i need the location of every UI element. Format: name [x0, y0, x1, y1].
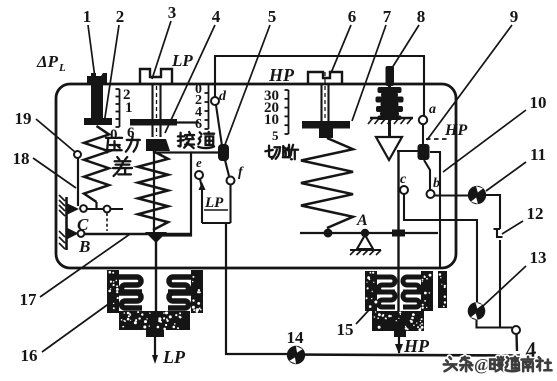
- contact B arrow: [68, 228, 79, 239]
- HP scale bracket: [288, 90, 290, 134]
- svg-text:A: A: [356, 212, 368, 229]
- union 12 jog: [494, 229, 503, 237]
- svg-text:12: 12: [527, 204, 544, 223]
- text 压力差: [106, 138, 122, 153]
- wire 10 vertical: [430, 152, 440, 268]
- text 切断: [265, 146, 280, 159]
- junction circle right: [512, 326, 520, 334]
- bellows 16 assembly: [107, 270, 119, 313]
- frame ledge to contact blob: [191, 151, 222, 153]
- svg-text:14: 14: [287, 328, 305, 347]
- lever A beam: [300, 232, 438, 234]
- dP screw rod: [91, 84, 103, 123]
- contact lever d-f: [216, 105, 222, 146]
- HP adjusting screw head: [308, 72, 342, 84]
- rod T joint: [392, 230, 405, 237]
- terminal c: [400, 186, 408, 194]
- HP screw rod: [320, 84, 322, 122]
- svg-text:a: a: [429, 102, 436, 117]
- ground bar: [370, 117, 413, 119]
- wire c to valve 13: [404, 194, 477, 302]
- terminal b: [427, 190, 435, 198]
- svg-text:6: 6: [348, 7, 357, 26]
- svg-text:LP: LP: [171, 51, 193, 70]
- svg-text:16: 16: [21, 346, 38, 365]
- contact arm rod (18): [77, 158, 79, 206]
- dP pointer bar: [84, 118, 112, 125]
- svg-text:18: 18: [13, 149, 30, 168]
- wire d-a top pipe: [215, 56, 424, 116]
- lever pivot circle (19): [74, 151, 81, 158]
- HP supply pipe: [398, 337, 400, 353]
- disc stack: [388, 86, 391, 137]
- wire valve11 right and down: [486, 195, 500, 229]
- LP supply pipe: [154, 337, 156, 360]
- LP scale bracket: [208, 84, 210, 129]
- fixed armature bar hatched: [65, 197, 68, 250]
- HP port dashed: [426, 138, 450, 140]
- controller case: [56, 84, 456, 268]
- pivot A: [361, 229, 369, 237]
- valve 13: [465, 300, 487, 322]
- wire e-f joint: [202, 222, 231, 224]
- LP bellows push rod: [155, 236, 157, 313]
- bellows 16 base: [119, 311, 190, 330]
- svg-text:8: 8: [417, 7, 426, 26]
- valve 14: [284, 343, 308, 367]
- svg-text:0.: 0.: [110, 127, 122, 143]
- svg-text:11: 11: [530, 145, 546, 164]
- svg-text:d: d: [219, 89, 227, 104]
- stop screw 8 head: [386, 66, 395, 86]
- bottom pipe: [287, 355, 520, 356]
- text 接通: [178, 132, 194, 148]
- LP screw rod: [151, 84, 153, 137]
- watermark 头条@暖通南社: [444, 357, 458, 371]
- svg-text:c: c: [400, 172, 407, 187]
- main beam (17): [84, 233, 191, 235]
- wire f down: [229, 185, 231, 224]
- svg-text:4: 4: [212, 7, 221, 26]
- pipe to bottom main: [226, 223, 287, 354]
- wire b to valve 11: [434, 194, 468, 196]
- LP range spring: [138, 151, 168, 230]
- terminal e: [195, 171, 203, 179]
- terminal f: [227, 177, 235, 185]
- svg-text:17: 17: [20, 290, 38, 309]
- terminal d: [211, 97, 219, 105]
- svg-text:6: 6: [127, 125, 135, 141]
- HP bellows push rod: [397, 151, 399, 313]
- valve 11: [465, 183, 488, 206]
- svg-text:HP: HP: [268, 65, 295, 85]
- HP range spring: [301, 138, 353, 228]
- svg-text:7: 7: [383, 7, 392, 26]
- dP adjusting screw head: [87, 73, 107, 84]
- svg-text:LP: LP: [204, 195, 224, 211]
- svg-text:LP: LP: [162, 347, 186, 367]
- LP pointer bar: [130, 119, 177, 126]
- bellows 15 base: [372, 311, 424, 331]
- LP adjusting screw head: [140, 69, 172, 84]
- contact C arrow: [68, 204, 80, 215]
- svg-text:B: B: [78, 237, 90, 256]
- link rod to contact: [397, 150, 419, 152]
- stop cone: [376, 137, 402, 160]
- svg-text:10: 10: [264, 112, 279, 128]
- dP differential spring: [84, 126, 109, 202]
- svg-text:3: 3: [168, 3, 177, 22]
- contact C circles and arm: [83, 208, 123, 210]
- svg-text:9: 9: [510, 7, 519, 26]
- svg-text:HP: HP: [403, 336, 430, 356]
- LP spring seat: [146, 139, 170, 151]
- svg-text:HP: HP: [444, 122, 467, 139]
- bellows 15 assembly: [365, 271, 377, 311]
- svg-text:13: 13: [530, 248, 547, 267]
- svg-text:e: e: [196, 155, 202, 170]
- contact block: [418, 144, 430, 160]
- svg-text:6: 6: [195, 117, 202, 132]
- svg-text:15: 15: [337, 320, 354, 339]
- svg-text:2: 2: [116, 7, 125, 26]
- svg-text:19: 19: [15, 109, 32, 128]
- wire e down with arrow: [200, 179, 202, 223]
- wire valve13 bottom: [477, 320, 513, 328]
- svg-text:10: 10: [530, 93, 547, 112]
- dP scale bracket: [119, 89, 121, 127]
- terminal a: [422, 116, 424, 145]
- HP pointer bar: [302, 121, 350, 129]
- svg-text:ΔP: ΔP: [36, 52, 59, 71]
- HP spring anchor dot: [324, 229, 333, 238]
- svg-text:5: 5: [268, 7, 277, 26]
- svg-text:5: 5: [272, 128, 279, 143]
- LP spring bottom arrow: [145, 232, 167, 243]
- svg-text:1: 1: [125, 100, 133, 116]
- bellows 15 right bracket: [438, 271, 447, 308]
- svg-text:L: L: [58, 62, 66, 74]
- bellows speckle texture: [141, 313, 143, 315]
- LP range spring frame box: [154, 153, 191, 236]
- wire contact to b: [424, 160, 430, 190]
- svg-text:1: 1: [83, 7, 92, 26]
